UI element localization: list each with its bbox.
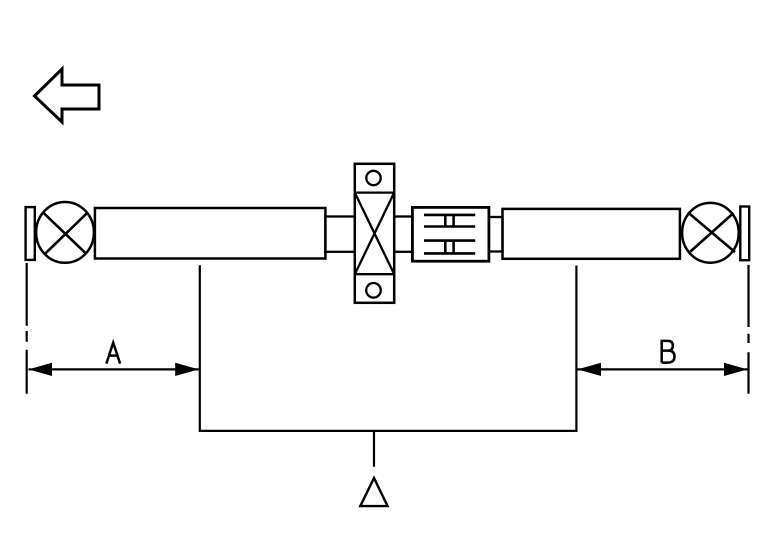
universal joint left xyxy=(36,202,94,263)
label B xyxy=(662,341,675,363)
connector stub (center bearing to slip joint) xyxy=(394,217,412,252)
universal joint right xyxy=(682,203,739,263)
shaft tube left xyxy=(95,208,326,259)
datum triangle xyxy=(360,478,387,506)
flange right xyxy=(740,207,749,261)
center bearing bolt hole top xyxy=(366,171,380,185)
connector stub left (shaft to center bearing) xyxy=(325,217,354,252)
center bearing block xyxy=(355,164,394,303)
centerline left (dash-dot extension) xyxy=(26,263,28,394)
flange left xyxy=(26,207,35,260)
connector stub (slip joint to right shaft) xyxy=(489,217,503,252)
dimension B xyxy=(578,363,748,376)
label A xyxy=(106,343,120,364)
centerline right (dash-dot extension) xyxy=(747,265,749,394)
slip joint (spline coupling) xyxy=(412,207,489,261)
direction arrow (vehicle forward direction) xyxy=(35,69,100,122)
center bearing bolt hole bottom xyxy=(366,283,381,298)
dimension A xyxy=(29,363,199,376)
shaft tube right xyxy=(503,209,680,259)
reference bracket (shaft assembly extent) xyxy=(200,265,577,467)
